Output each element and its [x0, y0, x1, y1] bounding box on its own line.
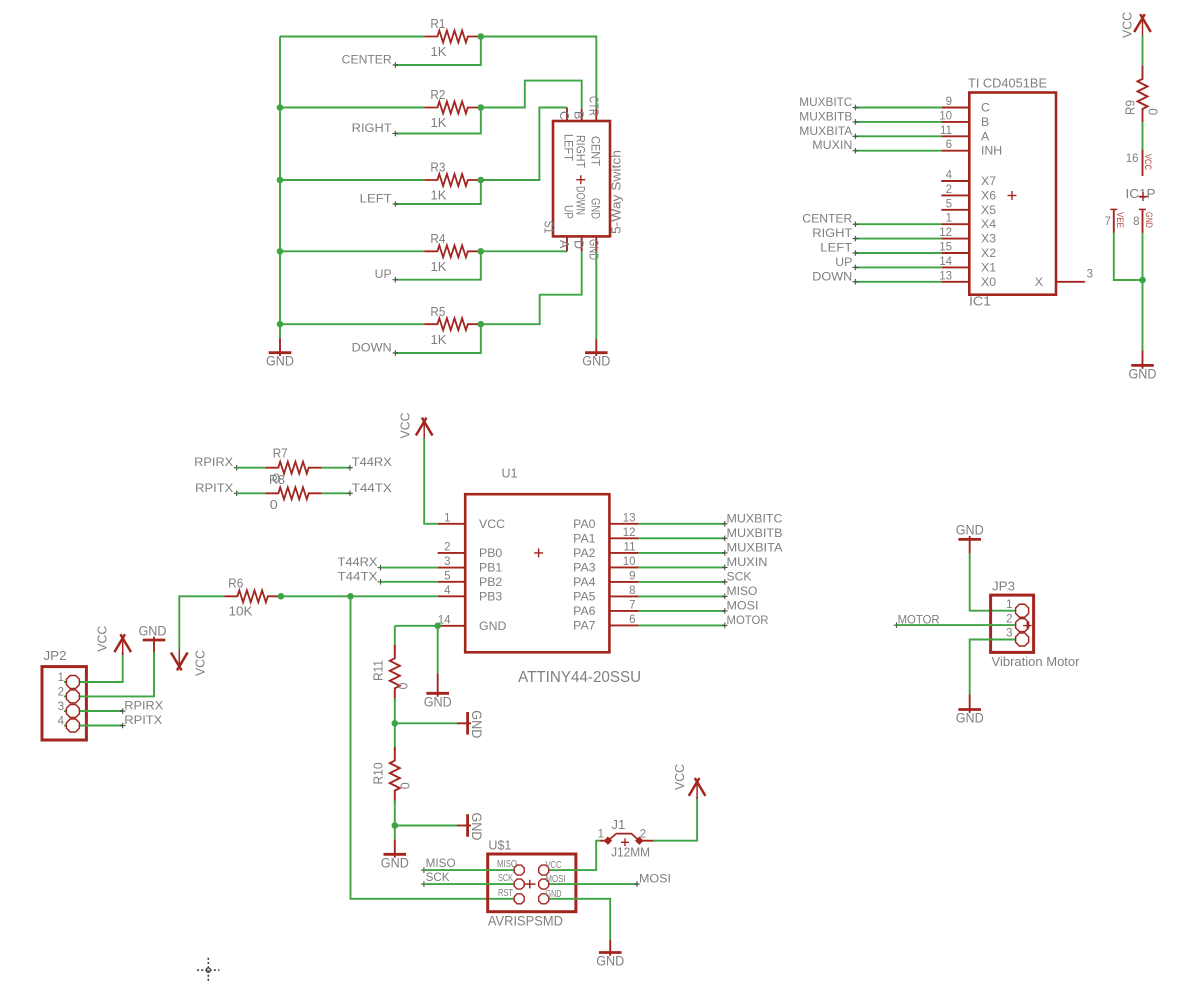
svg-text:X2: X2 [981, 246, 996, 260]
wire to GND right of R11 [395, 722, 457, 724]
node MUXBITC IC1 [853, 107, 859, 109]
power VCC right [1134, 14, 1145, 32]
pin 6 PA7 U1 [609, 624, 638, 626]
svg-text:DOWN: DOWN [574, 186, 586, 215]
wire junction to R10 [394, 723, 396, 751]
svg-text:MOSI: MOSI [546, 874, 566, 885]
wire switch GND [595, 251, 597, 339]
svg-text:1: 1 [946, 213, 952, 225]
wire MISO net [639, 595, 725, 597]
sheet origin marker [197, 958, 220, 983]
svg-text:C: C [981, 101, 990, 115]
svg-text:GND: GND [266, 354, 294, 369]
resistor R8 [265, 487, 322, 499]
ground GND switch [595, 339, 597, 356]
svg-text:MISO: MISO [727, 584, 758, 598]
svg-text:RPITX: RPITX [195, 481, 233, 495]
node LEFT IC1 [853, 252, 859, 254]
node T44TX label [347, 492, 353, 494]
wire MUXBITA to IC1 [856, 135, 942, 137]
node RPIRX [120, 710, 126, 712]
svg-text:GND: GND [586, 239, 600, 260]
svg-text:MUXBITB: MUXBITB [799, 109, 852, 123]
svg-text:8: 8 [629, 585, 635, 597]
node MOTOR [722, 624, 728, 626]
pin 7 VEE IC1P [1113, 209, 1115, 233]
svg-text:C: C [557, 111, 571, 120]
svg-text:MUXIN: MUXIN [812, 138, 852, 152]
pin 1 JP2 [66, 676, 79, 689]
resistor R2 [424, 102, 481, 114]
svg-text:GND: GND [596, 954, 624, 969]
junction bus R4 [277, 248, 284, 255]
svg-text:DOWN: DOWN [352, 341, 392, 355]
wire DOWN label riser [396, 324, 481, 353]
svg-text:GND: GND [381, 855, 409, 870]
svg-text:10: 10 [623, 556, 636, 568]
wire T44RX to PB1 [381, 567, 438, 569]
wire RPIRX to R7 [237, 467, 265, 469]
node MUXBITB IC1 [853, 121, 859, 123]
wire LEFT to IC1 [856, 252, 942, 254]
resistor R10 [390, 747, 400, 804]
wire pin14 to R11 [394, 626, 396, 649]
svg-text:6: 6 [629, 614, 635, 626]
wire CTR net [481, 37, 597, 109]
wire R7 to T44RX [322, 467, 350, 469]
pin 8 PA5 U1 [609, 595, 638, 597]
wire MUXBITC to IC1 [856, 107, 942, 109]
svg-text:SCK: SCK [498, 873, 513, 884]
wire GND to JP3 pin1 [970, 554, 1015, 611]
svg-text:PA1: PA1 [573, 531, 595, 545]
wire JP2 pin1 to VCC [64, 652, 123, 682]
wire MUXBITB net [639, 537, 725, 539]
svg-text:JP3: JP3 [992, 579, 1015, 594]
wire R9 to pin16 [1142, 122, 1144, 149]
svg-text:MUXBITC: MUXBITC [727, 511, 783, 525]
svg-text:U$1: U$1 [488, 838, 511, 853]
svg-text:10: 10 [939, 110, 952, 122]
wire UP to IC1 [856, 266, 942, 268]
node RPITX label [234, 492, 240, 494]
wire R8 to T44TX [322, 492, 350, 494]
svg-text:1K: 1K [431, 259, 447, 274]
connector JP2 [42, 667, 86, 740]
svg-text:S1: S1 [541, 221, 555, 234]
switch S1 [553, 121, 610, 236]
pin 6 INH [941, 150, 969, 152]
pin 8 GND IC1P [1142, 209, 1144, 233]
wire MOTOR net [639, 624, 725, 626]
origin IC1 [1008, 195, 1017, 197]
node RPIRX label [234, 467, 240, 469]
wire CENTER label riser [396, 37, 481, 66]
svg-text:LEFT: LEFT [820, 241, 853, 255]
svg-text:VEE: VEE [1115, 212, 1125, 228]
svg-text:MISO: MISO [426, 856, 456, 870]
pin 2 JP3 [1016, 619, 1029, 632]
svg-text:J12MM: J12MM [611, 844, 650, 859]
pin 9 C [941, 107, 969, 109]
node MUXIN [722, 566, 728, 568]
pin 2 X6 [941, 194, 969, 196]
svg-text:PA7: PA7 [573, 618, 595, 632]
svg-text:INH: INH [981, 144, 1002, 158]
svg-text:0: 0 [1146, 108, 1161, 115]
wire SCK to pad [424, 883, 519, 885]
pin 7 PA6 U1 [609, 610, 638, 612]
node UP IC1 [853, 266, 859, 268]
svg-text:3: 3 [1006, 628, 1012, 640]
ground GND US1 [609, 940, 611, 956]
svg-text:U1: U1 [502, 466, 518, 481]
node DOWN IC1 [853, 281, 859, 283]
node MUXBITA IC1 [853, 135, 859, 137]
wire VCC to R9 [1142, 35, 1144, 66]
wire pin7 to GND [1114, 233, 1143, 280]
svg-text:CENT: CENT [589, 136, 601, 166]
svg-text:MUXIN: MUXIN [727, 555, 768, 569]
wire MUXBITC net [639, 523, 725, 525]
wire to GND below U1 [437, 626, 439, 674]
power VCC R6 [171, 653, 182, 671]
svg-text:UP: UP [562, 205, 574, 219]
svg-text:CENTER: CENTER [802, 212, 852, 226]
pin 13 X0 [941, 281, 969, 283]
svg-text:GND: GND [424, 694, 452, 709]
svg-text:PA4: PA4 [573, 575, 595, 589]
pin 4 PB3 U1 [438, 595, 466, 597]
wire T44TX to PB2 [381, 581, 438, 583]
svg-text:PA2: PA2 [573, 546, 595, 560]
svg-text:5: 5 [444, 570, 450, 582]
svg-text:R5: R5 [430, 304, 445, 319]
node RIGHT [393, 133, 399, 135]
svg-text:RPIRX: RPIRX [124, 699, 163, 713]
wire VCC to pin1 [424, 439, 438, 524]
svg-text:A: A [557, 240, 571, 249]
svg-text:RIGHT: RIGHT [352, 121, 393, 135]
pin 1 VCC U1 [438, 523, 466, 525]
svg-text:RPITX: RPITX [124, 713, 162, 727]
svg-text:12: 12 [939, 227, 952, 239]
node DOWN [393, 352, 399, 354]
node MISO [722, 595, 728, 597]
wire R10 to junction [394, 800, 396, 825]
wire MOSI pad to label [544, 883, 637, 885]
node LEFT [393, 203, 399, 205]
wire JP2 pin4 RPITX [64, 725, 123, 727]
wire UP label riser [396, 251, 481, 279]
origin S1 [576, 179, 585, 181]
junction R3 out [478, 177, 485, 184]
pin 14 X1 [941, 266, 969, 268]
svg-text:12: 12 [623, 527, 636, 539]
pin 3 JP3 [1016, 633, 1029, 646]
svg-text:T44TX: T44TX [352, 481, 392, 495]
ground GND left [279, 338, 281, 356]
ground GND IC1P [1142, 350, 1144, 368]
wire B net [481, 81, 582, 109]
svg-text:UP: UP [835, 255, 852, 269]
node MOSI [722, 610, 728, 612]
svg-text:MISO: MISO [497, 859, 517, 870]
junction bus R2 [277, 104, 284, 111]
svg-text:DOWN: DOWN [812, 269, 852, 283]
svg-text:GND: GND [469, 710, 484, 738]
IC U1 ATTINY44 [465, 494, 609, 652]
svg-text:GND: GND [589, 198, 601, 219]
node T44TX [378, 581, 384, 583]
node T44RX label [347, 467, 353, 469]
svg-text:1: 1 [444, 512, 450, 524]
junction bus R3 [277, 177, 284, 184]
pin 11 PA2 U1 [609, 552, 638, 554]
svg-text:X4: X4 [981, 217, 996, 231]
pin 5 X5 [941, 209, 969, 211]
svg-text:0: 0 [398, 782, 413, 789]
junction RST riser [347, 593, 354, 600]
wire MOSI net [639, 610, 725, 612]
svg-text:MOSI: MOSI [639, 871, 671, 885]
svg-text:VCC: VCC [193, 650, 208, 676]
wire bus to R5 [280, 323, 424, 325]
svg-text:GND: GND [956, 523, 984, 538]
junction bus R5 [277, 321, 284, 328]
node MOTOR [894, 624, 900, 626]
pin 12 X3 [941, 238, 969, 240]
pin 4 X7 [941, 180, 969, 182]
svg-text:4: 4 [444, 585, 451, 597]
svg-text:J1: J1 [611, 817, 625, 832]
node MUXIN IC1 [853, 150, 859, 152]
pin 3 PB1 U1 [438, 567, 466, 569]
svg-text:R9: R9 [1123, 100, 1138, 115]
resistor R11 [390, 645, 400, 702]
wire to GND right of R10 [395, 825, 457, 827]
svg-text:11: 11 [624, 541, 636, 553]
svg-text:T44RX: T44RX [352, 455, 392, 469]
pin 4 JP2 [66, 719, 79, 732]
svg-text:MUXBITB: MUXBITB [727, 526, 783, 540]
svg-text:RPIRX: RPIRX [194, 455, 233, 469]
wire GND pad to GND [544, 899, 611, 940]
svg-text:UP: UP [375, 267, 392, 281]
ground GND JP2 [153, 637, 155, 652]
junction GND pin14 [434, 623, 441, 630]
svg-text:B: B [981, 115, 989, 129]
wire R11 to junction [394, 698, 396, 723]
wire JP2 pin3 RPIRX [64, 710, 123, 712]
svg-text:R7: R7 [273, 446, 288, 461]
wire MUXBITB to IC1 [856, 121, 942, 123]
svg-text:X7: X7 [981, 174, 996, 188]
svg-text:X5: X5 [981, 203, 996, 217]
svg-text:CENTER: CENTER [342, 53, 392, 67]
node MUXBITA [722, 552, 728, 554]
junction IC1P GND [1139, 277, 1146, 284]
pad RST US1 [514, 894, 524, 904]
svg-text:2: 2 [946, 184, 952, 196]
svg-text:Vibration Motor: Vibration Motor [992, 655, 1080, 669]
svg-text:PB1: PB1 [479, 561, 502, 575]
wire GND pin14 [395, 625, 438, 627]
node CENTER [393, 64, 399, 66]
wire CENTER to IC1 [856, 223, 942, 225]
svg-text:SCK: SCK [426, 870, 450, 884]
svg-text:D: D [572, 240, 586, 249]
svg-text:R2: R2 [430, 87, 445, 102]
svg-text:2: 2 [640, 829, 646, 841]
svg-text:3: 3 [58, 701, 64, 713]
node MOSI label [634, 883, 640, 885]
pin 16 VCC IC1P [1142, 150, 1144, 176]
origin US1 [524, 883, 536, 885]
svg-text:7: 7 [1105, 216, 1111, 228]
node MUXBITC [722, 523, 728, 525]
wire JP3 pin3 to GND [970, 640, 1015, 695]
svg-text:2: 2 [1006, 613, 1012, 625]
ground GND U1 [437, 673, 439, 696]
junction R5 out [478, 321, 485, 328]
svg-text:R6: R6 [228, 576, 243, 591]
wire RST riser [351, 596, 520, 899]
svg-text:R10: R10 [371, 763, 386, 785]
svg-text:PA0: PA0 [573, 517, 595, 531]
svg-text:0: 0 [395, 683, 410, 690]
svg-text:2: 2 [58, 686, 64, 698]
resistor R5 [424, 318, 481, 330]
svg-text:1K: 1K [431, 188, 447, 203]
resistor R6 [224, 590, 281, 602]
svg-text:R3: R3 [430, 160, 445, 175]
svg-text:R1: R1 [430, 16, 445, 31]
svg-text:TI CD4051BE: TI CD4051BE [968, 77, 1047, 91]
svg-text:GND: GND [546, 889, 562, 900]
resistor R9 [1138, 66, 1148, 123]
svg-text:T44RX: T44RX [338, 555, 378, 569]
junction R1 out [478, 33, 485, 40]
pin 1 X4 [941, 223, 969, 225]
svg-text:VCC: VCC [479, 517, 505, 531]
svg-text:GND: GND [479, 619, 506, 633]
origin JP3 [1023, 625, 1031, 627]
junction R11 bottom [392, 720, 399, 727]
svg-text:GND: GND [139, 623, 167, 638]
power VCC JP2 [114, 634, 125, 652]
node MUXBITB [722, 537, 728, 539]
svg-text:IC1: IC1 [969, 294, 991, 309]
wire VCC pad to J1 [544, 841, 600, 870]
wire SCK net [639, 581, 725, 583]
pin 9 PA4 U1 [609, 581, 638, 583]
svg-text:GND: GND [1144, 212, 1154, 228]
resistor R7 [265, 462, 322, 474]
pin 14 GND U1 [438, 625, 466, 627]
ground GND right R10 [457, 825, 471, 827]
svg-text:SCK: SCK [727, 569, 752, 583]
resistor R4 [424, 245, 481, 257]
svg-text:PB2: PB2 [479, 575, 502, 589]
svg-text:GND: GND [1129, 366, 1157, 381]
svg-text:LEFT: LEFT [562, 134, 574, 161]
node SCK label [421, 883, 427, 885]
jumper J1 [600, 840, 608, 842]
svg-text:VCC: VCC [95, 626, 110, 652]
svg-text:MOSI: MOSI [727, 598, 759, 612]
wire C net [481, 108, 567, 181]
svg-text:ATTINY44-20SSU: ATTINY44-20SSU [518, 669, 641, 686]
wire LEFT label riser [396, 180, 481, 204]
wire RIGHT to IC1 [856, 238, 942, 240]
junction R4 out [478, 248, 485, 255]
wire RPITX to R8 [237, 492, 265, 494]
svg-text:LEFT: LEFT [360, 192, 393, 206]
ground GND below R10 [394, 839, 396, 857]
svg-text:1K: 1K [431, 332, 447, 347]
svg-text:1: 1 [1006, 599, 1012, 611]
wire bus to R1 [280, 36, 424, 38]
svg-text:AVRISPSMD: AVRISPSMD [488, 913, 563, 928]
pin 3 JP2 [66, 705, 79, 718]
pad MOSI US1 [539, 879, 549, 889]
wire JP2 pin2 to GND [64, 652, 154, 696]
node MISO label [421, 869, 427, 871]
svg-text:VCC: VCC [1143, 154, 1153, 170]
svg-text:1: 1 [58, 672, 64, 684]
pin 10 B [941, 121, 969, 123]
svg-text:GND: GND [582, 354, 610, 369]
svg-text:VCC: VCC [1120, 12, 1135, 38]
svg-text:9: 9 [629, 570, 635, 582]
resistor R1 [424, 31, 481, 43]
svg-text:MOTOR: MOTOR [727, 613, 769, 627]
svg-text:13: 13 [623, 512, 636, 524]
svg-text:PB3: PB3 [479, 589, 502, 603]
wire R6 to PB3 [281, 595, 438, 597]
svg-text:10K: 10K [229, 604, 253, 619]
svg-text:B: B [572, 111, 586, 119]
node UP [393, 279, 399, 281]
pad VCC US1 [539, 865, 549, 875]
node T44RX [378, 567, 384, 569]
wire bus to R2 [280, 107, 424, 109]
svg-text:4: 4 [946, 170, 953, 182]
wire bus to R3 [280, 179, 424, 181]
svg-text:15: 15 [939, 242, 952, 254]
wire R10 to GND [394, 826, 396, 840]
svg-text:6: 6 [946, 139, 952, 151]
svg-text:GND: GND [469, 813, 484, 841]
pad GND US1 [539, 894, 549, 904]
wire pin8 to GND [1142, 233, 1144, 351]
svg-text:VCC: VCC [672, 764, 687, 790]
junction R10 bottom [392, 822, 399, 829]
IC U1 box IC1 [969, 93, 1056, 295]
node RPITX [120, 725, 126, 727]
wire MUXBITA net [639, 552, 725, 554]
pin 12 PA1 U1 [609, 537, 638, 539]
svg-text:X0: X0 [981, 275, 996, 289]
ground GND right R11 [457, 722, 471, 724]
svg-text:MUXBITC: MUXBITC [799, 95, 852, 109]
svg-text:GND: GND [956, 711, 984, 726]
svg-text:1K: 1K [431, 44, 447, 59]
pin 2 PB0 U1 [438, 552, 466, 554]
svg-text:11: 11 [940, 125, 952, 137]
svg-text:16: 16 [1126, 153, 1139, 165]
